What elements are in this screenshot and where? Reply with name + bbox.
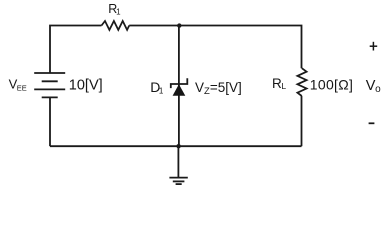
svg-text:D1: D1 (150, 79, 164, 96)
zener diode D1 cathode bar (171, 78, 188, 88)
wire: top rail from R1 through node A to top-right corner and down to RL (129, 26, 301, 69)
svg-text:10[V]: 10[V] (69, 77, 103, 93)
wire: bottom rail (50, 145, 302, 147)
battery VEE plate short upper (42, 80, 58, 82)
wire: RL bottom to bottom-right corner (301, 96, 303, 146)
node A junction dot (R1 / D1 / RL) (177, 23, 181, 27)
label - (Vo negative polarity) (369, 122, 375, 124)
resistor R1 (102, 21, 130, 30)
wire: diode branch from node A down to node B (178, 26, 180, 147)
battery VEE plate short bottom (42, 96, 58, 98)
svg-text:RL: RL (272, 76, 286, 91)
svg-text:VZ=5[V]: VZ=5[V] (195, 80, 242, 97)
svg-text:R1: R1 (108, 2, 121, 16)
svg-text:100[Ω]: 100[Ω] (310, 76, 353, 92)
battery VEE plate long top (34, 72, 65, 74)
svg-text:Vo: Vo (366, 78, 381, 95)
wire: battery positive terminal up and along top rail to R1 (50, 26, 102, 73)
svg-text:VEE: VEE (9, 76, 27, 92)
zener diode D1 anode triangle (173, 84, 186, 95)
resistor RL (297, 68, 306, 96)
label + (Vo positive polarity) (370, 42, 378, 51)
wire: ground stub (177, 146, 179, 177)
wire: battery negative terminal down to bottom rail (49, 97, 51, 146)
battery VEE plate long lower (34, 88, 65, 90)
ground (169, 178, 187, 185)
node B junction dot (diode branch / bottom rail / ground) (176, 144, 180, 148)
